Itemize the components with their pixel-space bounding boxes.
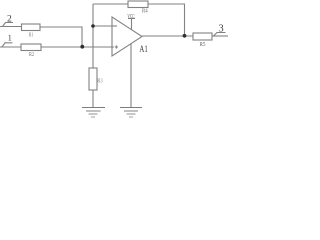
- ground: [82, 108, 105, 118]
- resistor R5: [193, 33, 212, 40]
- wire: [0, 26, 22, 28]
- svg-text:2: 2: [7, 15, 12, 25]
- svg-text:R5: R5: [200, 42, 206, 48]
- wire: [93, 25, 112, 27]
- svg-text:A1: A1: [139, 44, 147, 54]
- resistor R2: [21, 44, 41, 51]
- resistor R3: [89, 68, 97, 90]
- svg-text:3: 3: [219, 24, 224, 35]
- wire: [0, 46, 21, 48]
- op-amp A1: [112, 17, 142, 56]
- wire output: [142, 35, 193, 37]
- svg-text:R2: R2: [29, 51, 34, 58]
- wire: [148, 4, 185, 36]
- ground: [120, 108, 142, 118]
- svg-text:R1: R1: [29, 32, 34, 39]
- wire: [92, 90, 94, 107]
- terminal 1: [2, 43, 13, 47]
- terminal 3: [214, 33, 226, 37]
- resistor R1: [22, 24, 41, 31]
- wire feedback top: [93, 3, 128, 5]
- terminal 2: [3, 23, 14, 27]
- junction at output/feedback: [183, 34, 187, 38]
- resistor R4: [128, 1, 148, 8]
- junction at inverting node: [91, 24, 95, 28]
- svg-text:1: 1: [8, 34, 12, 43]
- wire: [41, 46, 114, 48]
- wire node line: [92, 4, 94, 68]
- wire: [40, 27, 82, 47]
- svg-text:R4: R4: [142, 8, 148, 15]
- svg-text:R3: R3: [97, 78, 102, 85]
- wire: [212, 35, 228, 37]
- junction at R1/R2 merge: [80, 45, 84, 49]
- ground lead of op-amp: [130, 44, 132, 107]
